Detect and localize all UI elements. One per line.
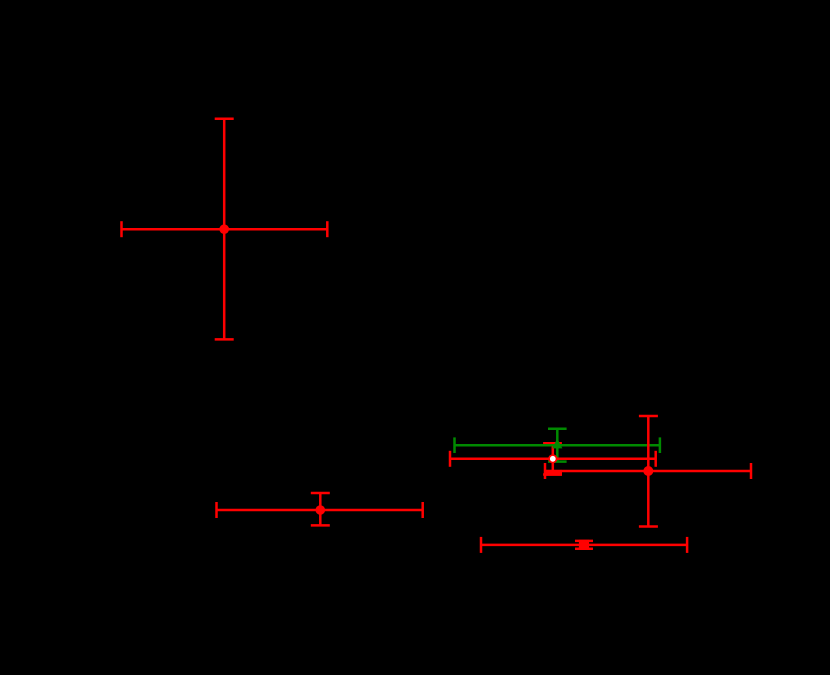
P6 left cap	[480, 537, 483, 553]
P4 marker open circle drawn on top	[549, 455, 557, 463]
P3 y-error line	[556, 429, 559, 462]
P6 marker filled square	[579, 540, 589, 550]
P2 x-error line	[217, 509, 423, 512]
P2 top cap	[311, 492, 330, 495]
data point P1 red: error bars	[122, 119, 328, 340]
P1 x-error line	[122, 228, 328, 231]
data point P6 red square: error bars	[481, 537, 687, 553]
data point P3 green: error bars	[455, 429, 660, 462]
P4 left cap	[449, 451, 452, 467]
P3 top cap	[548, 427, 567, 430]
P2 right cap	[421, 502, 424, 518]
P3 left cap	[453, 437, 456, 453]
P5 top cap	[639, 415, 658, 418]
P5 x-error line	[545, 470, 751, 473]
P3 marker filled triangle	[552, 439, 562, 449]
P2 left cap	[215, 502, 218, 518]
P5 left cap	[544, 463, 547, 479]
data point P2 red: error bars	[217, 493, 423, 525]
P6 bottom cap	[575, 548, 593, 551]
P6 right cap	[686, 537, 689, 553]
P3 bottom cap	[548, 460, 567, 463]
filler where P5 line overlaps P4 bottom cap	[545, 470, 562, 476]
P5 right cap	[750, 463, 753, 479]
P3 x-error line	[455, 444, 660, 447]
P1 bottom cap	[215, 338, 234, 341]
P5 marker filled circle	[643, 466, 653, 476]
P6 y-error line	[583, 541, 586, 549]
P1 top cap	[215, 118, 234, 121]
P1 y-error line	[223, 119, 226, 340]
P1 left cap	[120, 221, 123, 237]
P3 right cap	[659, 437, 662, 453]
P2 bottom cap	[311, 524, 330, 527]
P2 y-error line	[319, 493, 322, 525]
P2 marker filled circle	[316, 505, 326, 515]
data point P4: x-error (drawn over green)	[450, 451, 656, 467]
P1 marker filled circle	[219, 224, 229, 234]
P5 y-error line	[647, 416, 650, 527]
P4 bottom cap	[543, 473, 562, 476]
P5 bottom cap	[639, 525, 658, 528]
P6 x-error line	[481, 544, 687, 547]
data point P4 red open circle: y-error (drawn under green)	[543, 443, 562, 474]
P4 y-error line	[552, 443, 555, 474]
P4 x-error line	[450, 458, 656, 461]
P6 top cap	[575, 540, 593, 543]
P4 top cap	[543, 442, 562, 445]
data point P5 red: error bars	[545, 416, 751, 527]
P4 right cap	[654, 451, 657, 467]
P1 right cap	[326, 221, 329, 237]
